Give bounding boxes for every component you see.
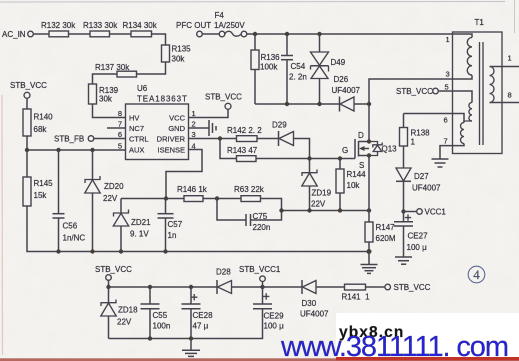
IC U6 TEA18363T [126,84,189,160]
wire pin 4 ISENSE to R146 row [166,150,202,199]
svg-text:STB_VCC1: STB_VCC1 [239,265,281,274]
wire source to source row [368,156,370,211]
svg-text:R145: R145 [34,179,54,188]
junction rail ZD20 [90,249,94,253]
node VCC1 terminal [401,208,446,217]
ground T1 pin 7 [432,159,449,167]
T1 secondary winding [490,67,495,103]
resistor R135 30k [162,45,192,64]
svg-text:ISENSE: ISENSE [157,146,185,155]
svg-text:3: 3 [446,70,450,79]
svg-text:D: D [358,131,364,140]
svg-text:22V: 22V [311,200,326,209]
svg-text:D30: D30 [302,299,317,308]
wire STB_FB to pin 6 CTRL [94,138,126,140]
T1 aux winding lower [461,123,465,144]
svg-text:STB_VCC: STB_VCC [10,81,47,90]
svg-text:68k: 68k [34,125,48,134]
svg-text:7: 7 [118,120,122,129]
capacitor C56 1n/NC [53,150,86,252]
wire gate row R143 to Q13 gate [256,158,355,160]
junction rail R136 [253,32,257,36]
svg-text:C57: C57 [168,220,183,229]
svg-text:4: 4 [473,267,480,282]
svg-text:R138: R138 [411,129,431,138]
svg-text:100 μ: 100 μ [264,322,285,331]
wire R140 to AUX node [26,136,28,150]
svg-text:G: G [342,146,348,155]
resistor R134 30k [123,21,158,37]
node STB_VCC1 terminal [239,265,281,287]
wire pin 7 NC stub [107,127,126,129]
svg-text:220n: 220n [253,223,271,232]
svg-text:C56: C56 [63,222,78,231]
resistor R142 2.2 [227,126,262,142]
svg-text:DRIVER: DRIVER [157,135,186,144]
node STB_VCC terminal at U6 VCC [205,93,242,110]
junction Q13 source [367,153,371,157]
resistor R145 15k [23,177,53,206]
resistor R143 47 [227,146,258,162]
svg-text:UF4007: UF4007 [300,310,329,319]
T1 core [480,42,484,145]
wire R133-R134 [110,33,132,35]
svg-text:2. 2n: 2. 2n [289,73,307,82]
svg-text:R133 30k: R133 30k [83,21,118,30]
junction source row Q13 [367,208,371,212]
wire VCC pin1 to STB_VCC [189,109,229,117]
svg-text:8: 8 [118,109,122,118]
svg-text:STB_VCC: STB_VCC [396,87,433,96]
svg-text:15k: 15k [34,191,48,200]
wire R132-R133 [69,33,91,35]
junction rail C56 [56,249,60,253]
sheet number mark [468,266,485,283]
resistor R140 68k [23,109,53,136]
svg-text:STB_VCC: STB_VCC [394,283,431,292]
svg-text:TEA18363T: TEA18363T [137,95,188,104]
svg-text:47 μ: 47 μ [193,322,209,331]
node STB_VCC terminal top-left [10,81,47,98]
resistor R139 30k [89,84,119,104]
resistor R138 1 [400,114,431,147]
transformer T1 box [453,18,503,154]
svg-text:R144: R144 [347,170,367,179]
capacitor C75 220n [217,199,270,233]
zener ZD21 9.1V [113,199,151,252]
svg-text:100k: 100k [260,63,278,72]
svg-text:R141 1: R141 1 [342,293,371,302]
junction gate-R144 [338,156,342,160]
wire T1 pin 3 to drain [369,75,472,104]
svg-text:CE28: CE28 [193,311,214,320]
svg-text:7: 7 [444,137,448,146]
svg-text:www.3811111. com: www.3811111. com [280,331,508,361]
svg-text:ZD18: ZD18 [118,306,138,315]
wire R139 to pin 8 HV [93,104,126,118]
diode D30 UF4007 [300,280,345,319]
svg-text:D27: D27 [414,172,429,181]
wire R63 right to source row [251,199,282,221]
svg-text:Q13: Q13 [382,145,398,154]
capacitor C57 1n [158,199,183,252]
svg-text:CTRL: CTRL [129,135,149,144]
svg-text:R134 30k: R134 30k [123,21,158,30]
junction C55 top [148,285,152,289]
capacitor CE27 100u [394,212,428,257]
junction rail end [367,249,372,254]
svg-text:D29: D29 [272,121,287,130]
svg-text:S: S [359,161,364,170]
svg-text:R147: R147 [376,223,396,232]
svg-text:6: 6 [118,130,122,139]
T1 primary winding [467,38,472,76]
svg-text:R142 2. 2: R142 2. 2 [227,126,262,135]
svg-text:R132 30k: R132 30k [41,21,76,30]
svg-text:R135: R135 [172,45,192,54]
wire T1 secondary pin 1 [490,54,519,67]
TVS D49 [311,34,346,104]
junction gate-ZD19 [307,156,311,160]
junction STB_VCC rail [106,285,110,289]
svg-text:22V: 22V [103,194,118,203]
wire aux winding jog [464,121,472,123]
resistor R136 100k [251,34,280,104]
fuse F4 1A/250V [202,11,247,37]
svg-text:R143 47: R143 47 [227,146,258,155]
svg-text:R140: R140 [34,113,54,122]
wire D29 to gate row [294,139,310,159]
junction R146-R63-C75 [215,196,219,200]
svg-text:2: 2 [192,120,196,129]
resistor R137 30k [95,63,137,77]
watermark white box [336,313,519,358]
svg-text:STB_VCC: STB_VCC [205,93,242,102]
zener ZD20 22V [85,150,124,252]
wire R134 to R135 [152,34,166,45]
svg-text:D28: D28 [216,268,231,277]
svg-text:STB_FB: STB_FB [54,135,84,144]
wire bottom top rail [109,286,218,288]
capacitor CE29 100u [253,287,284,331]
wire R142 to D29 [257,138,279,140]
resistor R147 620M [365,211,396,252]
junction CE28 top [189,285,193,289]
U6 pin numbers left 8 7 6 5 [118,109,122,151]
svg-text:GND: GND [168,124,185,133]
junction AUX-R140 [25,148,29,152]
resistor R141 1 [342,284,371,301]
junction STB_VCC1 rail [260,285,264,289]
node STB_VCC terminal bottom [95,265,132,287]
resistor R144 10k [336,159,366,211]
wire top rail fuse to T1 pin 1 [247,34,472,38]
resistor R132 30k [41,21,76,37]
svg-text:1: 1 [411,138,416,147]
U6 pin labels right [157,114,186,155]
svg-text:PFC OUT: PFC OUT [176,21,211,30]
svg-text:3: 3 [192,130,196,139]
ground CE27 [395,257,412,264]
junction snubber C54 [285,102,289,106]
junction C56 top [56,148,60,152]
wire AC_IN to R132 [33,33,49,35]
svg-text:5: 5 [118,142,122,151]
svg-text:D26: D26 [334,75,349,84]
resistor R146 1k [166,185,208,202]
wire STB_VCC1 to D30 [263,286,303,288]
node STB_VCC terminal at T1 pin 5 [396,83,449,97]
wire R137 to R139 [93,74,118,84]
svg-text:9. 1V: 9. 1V [130,230,149,239]
node AC_IN terminal [2,30,33,39]
U6 pin labels left [129,114,149,155]
wire R135 to R137 [137,62,166,74]
ground U6 GND pin 2 [189,120,217,136]
junction source row ZD19 [307,208,311,212]
capacitor C55 100n [141,287,171,339]
capacitor CE28 47u [182,287,214,339]
junction rail C54 [285,32,289,36]
junction snubber D49 [317,102,321,106]
svg-text:C75: C75 [253,212,268,221]
junction source row R144 [338,208,342,212]
wire AUX row pin 5 [27,149,126,151]
junction rail D49 [317,32,321,36]
wire STB_VCC to R140 [26,98,28,109]
svg-text:ZD20: ZD20 [104,182,124,191]
wire ZD21 top row [121,198,166,200]
zener ZD18 22V [101,287,138,339]
diode D26 UF4007 [332,75,370,112]
svg-text:HV: HV [129,114,139,123]
svg-text:100n: 100n [153,322,171,331]
svg-text:D49: D49 [331,58,346,67]
wire snubber bottom row [255,103,340,105]
ground CE28 [182,339,200,357]
svg-text:8: 8 [508,91,512,100]
svg-text:R136: R136 [261,53,281,62]
svg-text:30k: 30k [172,55,186,64]
svg-text:UF4007: UF4007 [332,86,361,95]
svg-text:UF4007: UF4007 [412,184,441,193]
svg-text:AC_IN: AC_IN [2,30,26,39]
svg-text:10k: 10k [347,181,361,190]
svg-text:VCC1: VCC1 [425,208,447,217]
svg-text:22V: 22V [117,318,132,327]
junction rail ZD21 [119,249,123,253]
diode D27 UF4007 [396,146,441,212]
U6 pin numbers right 1 2 3 4 [192,109,196,151]
watermark red underline [0,358,519,361]
svg-text:R146 1k: R146 1k [177,185,208,194]
T1 aux winding upper [469,103,472,122]
svg-text:STB_VCC: STB_VCC [95,265,132,274]
svg-text:5: 5 [445,83,449,92]
node STB_FB terminal [54,135,94,144]
junction ZD20 top [90,148,94,152]
junction C55 bottom [148,336,152,340]
svg-text:F4: F4 [215,11,225,20]
resistor R63 22k [234,185,265,202]
node STB_VCC terminal right [366,283,431,292]
wire pin 5 to aux winding [438,91,472,103]
junction rail C57 [163,249,167,253]
diode D28 [216,268,263,295]
junction ISENSE node [164,196,168,200]
svg-text:C55: C55 [153,311,168,320]
transistor Q13 (MOSFET) [342,131,397,170]
node PFC OUT terminal [176,21,211,37]
svg-text:1n/NC: 1n/NC [63,234,86,243]
diode D29 [272,121,294,147]
wire bottom ground rail [109,309,263,339]
svg-text:NC7: NC7 [129,124,144,133]
junction drain node top [367,102,371,106]
svg-text:ZD19: ZD19 [312,189,332,198]
svg-text:VCC: VCC [169,114,185,123]
junction Q13 drain [367,139,371,143]
resistor R133 30k [83,21,118,37]
svg-text:ZD21: ZD21 [131,218,151,227]
svg-text:6: 6 [444,116,448,125]
svg-text:1n: 1n [168,231,177,240]
svg-text:1: 1 [446,35,450,44]
junction DRIVER node [218,136,222,140]
svg-text:620M: 620M [376,234,396,243]
capacitor C54 2.2n [281,34,307,104]
svg-text:100 μ: 100 μ [407,243,428,252]
wire DRIVER down to R143 [220,139,237,159]
junction CE28 bottom [189,336,193,340]
wire drain vertical [368,104,370,142]
svg-text:30k: 30k [99,95,113,104]
svg-text:C54: C54 [291,62,306,71]
svg-text:R63 22k: R63 22k [234,185,265,194]
wire DRIVER pin 3 to R142 [189,138,237,140]
wire R145 to ground rail [27,206,369,252]
wire source row [282,210,370,212]
svg-text:CE29: CE29 [264,312,285,321]
T1 pin 7 label and wire [440,137,464,159]
svg-text:1A/250V: 1A/250V [214,21,245,30]
wire R146 to R63 [203,198,241,200]
ground primary rail [361,252,378,274]
svg-text:T1: T1 [475,18,485,27]
svg-text:1: 1 [508,54,512,63]
T1 pin 6 label and wire [404,114,465,125]
svg-text:1: 1 [192,109,196,118]
svg-text:AUX: AUX [129,146,144,155]
svg-text:U6: U6 [137,84,148,93]
wire T1 secondary pin 8 [490,91,519,103]
wire AUX node to R145 [26,150,28,177]
zener ZD19 22V [302,159,332,211]
junction source row left [279,208,283,212]
svg-text:CE27: CE27 [408,232,429,241]
